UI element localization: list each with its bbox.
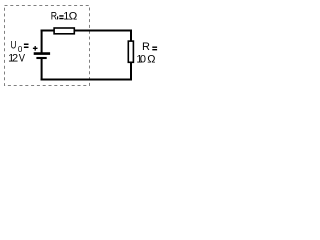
resistor R (box) — [128, 41, 133, 62]
label Ri equals sign — [59, 16, 63, 19]
battery U0 bottom plate (short, -) — [36, 57, 46, 59]
label U0 equals sign — [24, 44, 29, 47]
battery U0 top plate (long, +) — [34, 52, 50, 55]
resistor Ri (box) — [54, 28, 74, 34]
wire: left vertical lower — [41, 58, 43, 80]
svg-text:12V: 12V — [8, 52, 26, 64]
wire: top horizontal — [41, 30, 131, 32]
svg-text:10Ω: 10Ω — [136, 54, 155, 66]
label R equals sign — [152, 47, 157, 50]
wire: right vertical — [130, 30, 132, 81]
svg-text:R1Ω: R1Ω — [51, 10, 78, 22]
dashed source boundary box — [5, 6, 90, 86]
plus polarity sign — [33, 46, 38, 51]
wire: bottom horizontal — [41, 79, 132, 81]
wire: left vertical upper — [41, 30, 43, 53]
svg-text:R: R — [142, 41, 150, 53]
label Ri subscript i — [57, 16, 58, 19]
svg-text:U: U — [11, 40, 17, 52]
background — [0, 0, 162, 93]
